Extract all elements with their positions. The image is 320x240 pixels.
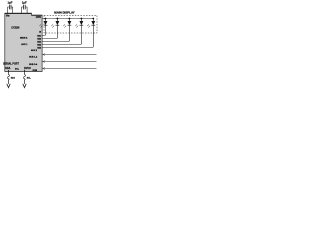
wire LED D4 cathode to chip <box>42 25 81 44</box>
svg-text:SDA: SDA <box>11 77 16 80</box>
svg-text:SUB 3-4: SUB 3-4 <box>29 63 38 66</box>
wire LED D5 cathode to chip <box>42 25 93 47</box>
wire LED D1 cathode to chip <box>42 25 45 35</box>
svg-text:MA3: MA3 <box>37 40 41 43</box>
svg-text:MAIN A: MAIN A <box>20 36 28 39</box>
svg-text:SUB 1-2: SUB 1-2 <box>29 57 38 59</box>
capacitor C2 1uF <box>22 5 28 13</box>
LED D1 <box>40 18 48 28</box>
arrowhead EN2 <box>43 60 45 62</box>
svg-text:MAIN DISPLAY: MAIN DISPLAY <box>54 10 75 14</box>
wire serial SCL <box>24 72 26 85</box>
wire EN1 output line <box>42 54 96 56</box>
wire LED D3 cathode to chip <box>42 25 69 41</box>
arrowhead SCL <box>23 84 26 88</box>
wire EN3 output line <box>42 68 96 70</box>
svg-text:SDA: SDA <box>5 67 10 70</box>
arrowhead EN1 <box>43 53 45 55</box>
IC U1 LTC3208 body <box>5 13 42 71</box>
wire CPO to LED anode bus <box>42 18 93 20</box>
svg-text:CPO: CPO <box>36 16 41 19</box>
svg-text:AUX 2: AUX 2 <box>31 49 38 52</box>
svg-text:MA4: MA4 <box>37 43 41 46</box>
svg-text:1µF: 1µF <box>8 1 13 5</box>
svg-text:SCL: SCL <box>27 78 32 80</box>
wire EN2 output line <box>42 61 96 63</box>
svg-text:SERIAL PORT: SERIAL PORT <box>3 62 19 66</box>
main display dashed box <box>44 15 97 33</box>
svg-text:18: 18 <box>39 31 41 33</box>
LED D5 <box>87 18 95 28</box>
svg-text:RGB: RGB <box>33 70 38 72</box>
svg-text:MA1: MA1 <box>37 34 41 37</box>
LED D3 <box>63 18 71 28</box>
svg-text:MA5: MA5 <box>37 46 41 49</box>
arrowhead SDA <box>7 84 10 88</box>
wire LED D2 cathode to chip <box>42 25 57 38</box>
svg-text:DVCC: DVCC <box>24 67 31 70</box>
wire serial SDA <box>8 72 10 85</box>
svg-text:LTC3208: LTC3208 <box>11 27 20 29</box>
LED D4 <box>75 18 83 28</box>
LED D2 <box>51 18 59 28</box>
svg-text:MA2: MA2 <box>37 37 41 40</box>
svg-text:1µF: 1µF <box>22 1 27 5</box>
IC top edge pin band <box>5 12 32 14</box>
capacitor C1 1uF <box>8 5 13 13</box>
arrowhead EN3 <box>43 67 45 69</box>
svg-text:AUX 1: AUX 1 <box>21 43 28 46</box>
